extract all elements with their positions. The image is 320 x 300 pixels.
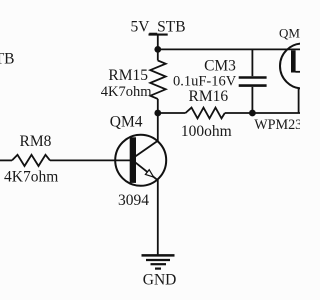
wire bottom rail right segment bbox=[225, 112, 300, 114]
svg-text:GND: GND bbox=[143, 271, 177, 288]
label QM5 (clipped at right edge) bbox=[279, 25, 306, 40]
net label 5V_STB bbox=[130, 19, 185, 36]
svg-text:RM8: RM8 bbox=[20, 133, 52, 150]
node junction mid (collector/RM16) bbox=[154, 110, 161, 117]
svg-text:4K7ohm: 4K7ohm bbox=[4, 169, 58, 186]
wire collector (junction to QM4) bbox=[157, 113, 159, 142]
resistor RM16 bbox=[186, 108, 225, 119]
svg-text:STB: STB bbox=[0, 50, 14, 67]
label RM16 bbox=[188, 88, 228, 105]
svg-text:4K7ohm: 4K7ohm bbox=[101, 84, 152, 100]
label GND bbox=[143, 271, 177, 288]
net label fragment STB (left edge, clipped) bbox=[0, 50, 14, 67]
svg-text:CM3: CM3 bbox=[204, 57, 236, 74]
wire base (RM8 to QM4) bbox=[50, 159, 133, 161]
transistor QM5 (clipped at right edge) bbox=[280, 44, 320, 89]
wire QM5 drain to bottom rail bbox=[298, 88, 300, 113]
node junction capacitor bottom bbox=[249, 110, 256, 117]
svg-text:WPM2303: WPM2303 bbox=[254, 117, 300, 133]
value 100ohm (RM16) bbox=[181, 123, 232, 140]
svg-text:QM4: QM4 bbox=[110, 113, 143, 130]
svg-text:0.1uF-16V: 0.1uF-16V bbox=[173, 74, 237, 90]
svg-text:RM16: RM16 bbox=[188, 88, 228, 105]
value WPM2303 (clipped at right edge) bbox=[254, 117, 316, 133]
svg-text:3094: 3094 bbox=[118, 192, 149, 209]
svg-text:5V_STB: 5V_STB bbox=[130, 19, 185, 36]
label RM8 bbox=[20, 133, 52, 150]
resistor RM15 bbox=[150, 49, 165, 113]
svg-text:QM5: QM5 bbox=[279, 25, 300, 40]
value 4K7ohm (RM8) bbox=[4, 169, 58, 186]
ground bbox=[142, 255, 175, 268]
transistor QM4 bbox=[115, 135, 166, 186]
label QM4 bbox=[110, 113, 143, 130]
label RM15 bbox=[108, 67, 148, 84]
svg-text:100ohm: 100ohm bbox=[181, 123, 232, 140]
node junction top (RM15/CM3 rail) bbox=[154, 46, 161, 53]
power symbol bar 5V_STB bbox=[149, 34, 168, 36]
resistor RM8 bbox=[0, 155, 50, 166]
value 3094 (QM4) bbox=[118, 192, 149, 209]
wire bottom rail left segment bbox=[158, 112, 186, 114]
value 4K7ohm (RM15) bbox=[101, 84, 152, 100]
label CM3 bbox=[204, 57, 236, 74]
value 0.1uF-16V (CM3) bbox=[173, 74, 237, 90]
wire power stem bbox=[157, 35, 159, 50]
capacitor CM3 bbox=[239, 49, 267, 113]
wire top rail bbox=[158, 48, 300, 50]
wire emitter to ground bbox=[157, 180, 159, 255]
svg-text:RM15: RM15 bbox=[108, 67, 148, 84]
